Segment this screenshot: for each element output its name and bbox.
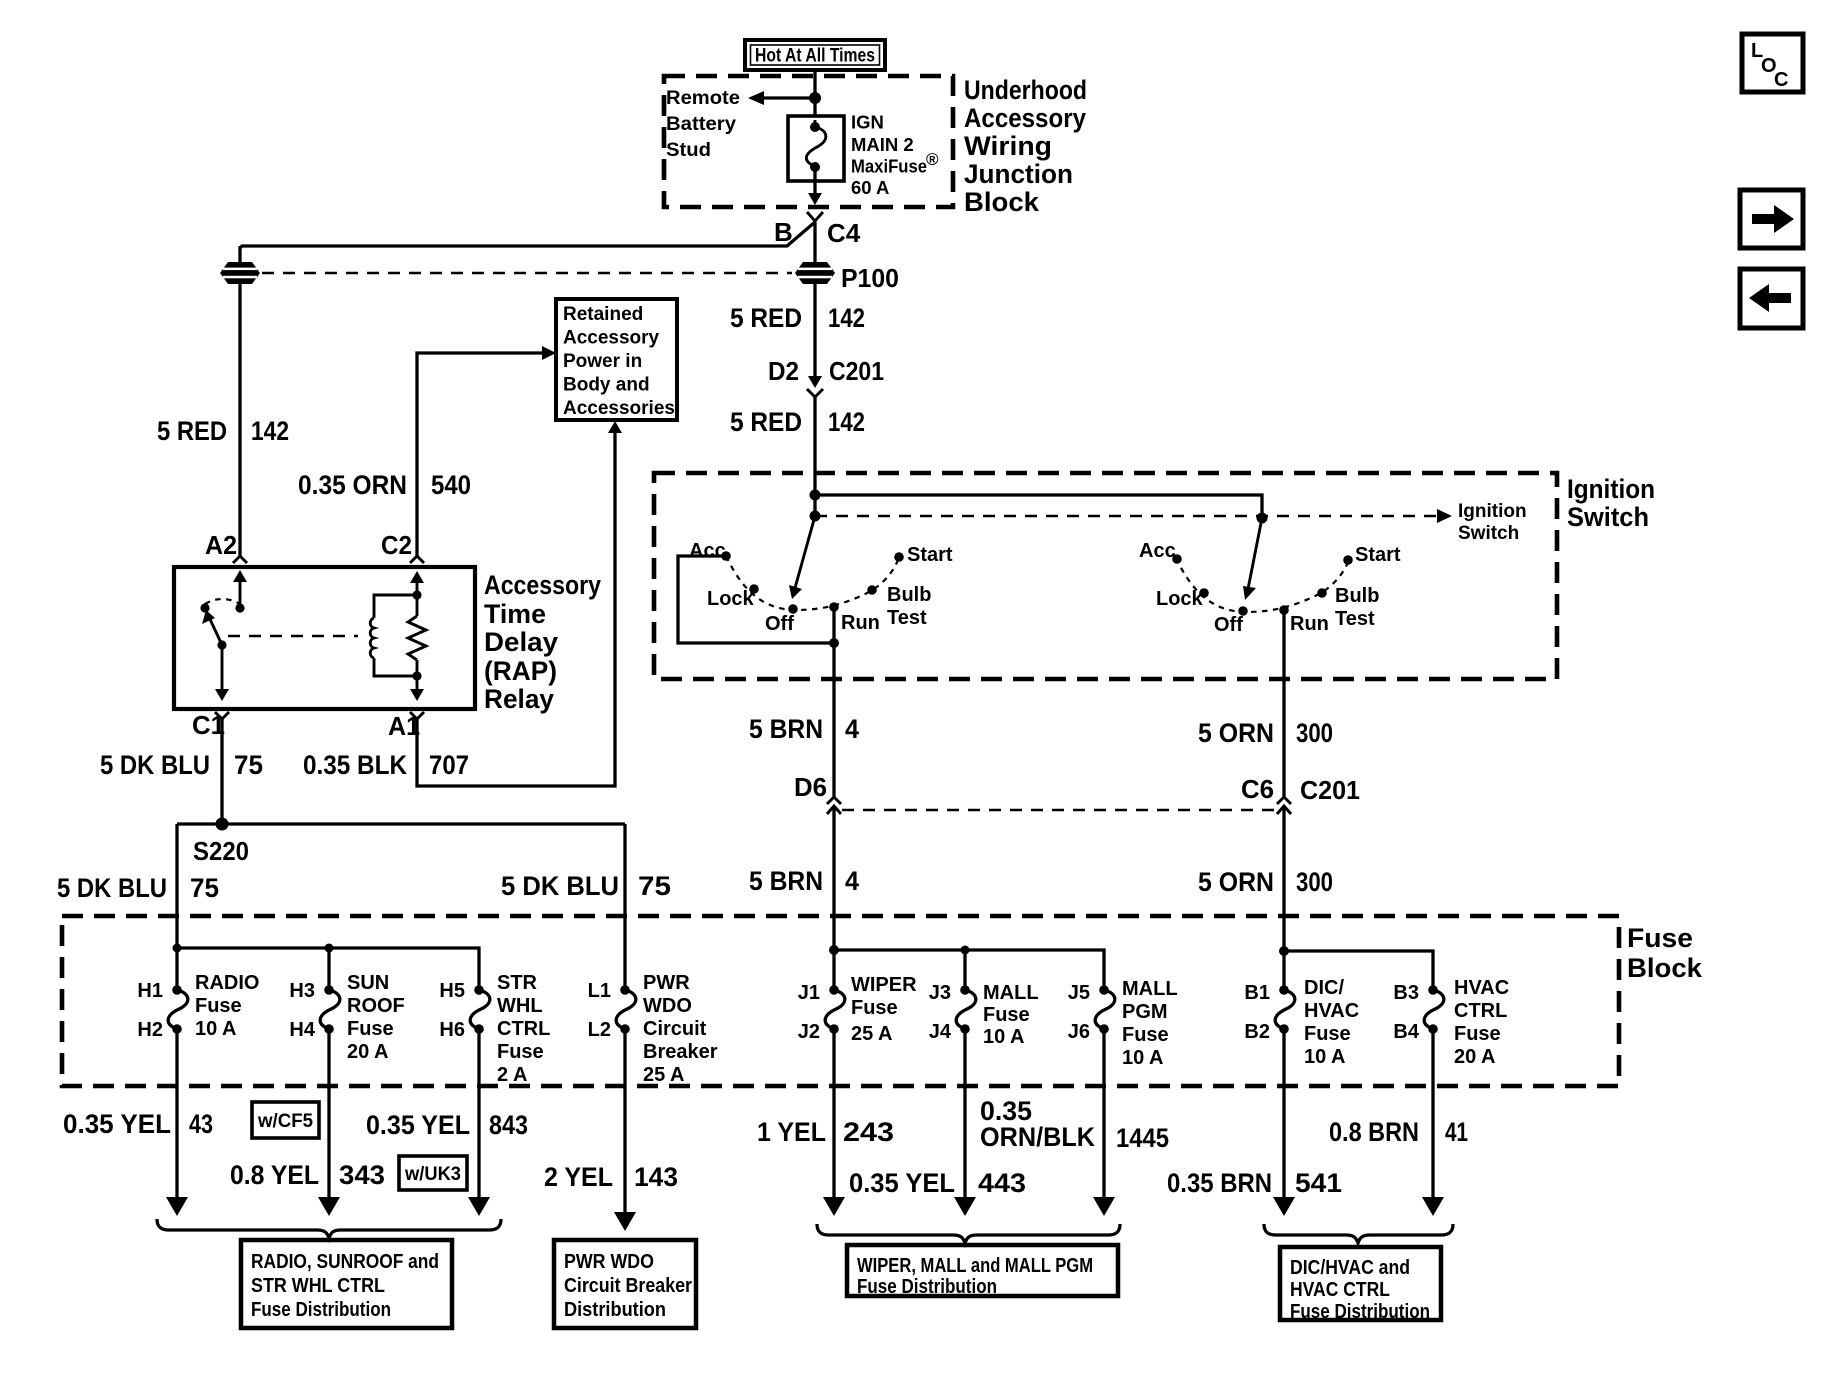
svg-text:0.35 YEL: 0.35 YEL (63, 1109, 171, 1139)
connector C1 chevron (215, 712, 229, 719)
svg-text:142: 142 (251, 416, 289, 446)
wire J2 output arrow (823, 1029, 845, 1216)
label 0.8 YEL 343 (230, 1160, 385, 1190)
svg-text:0.35 BRN: 0.35 BRN (1167, 1168, 1272, 1198)
svg-text:Remote: Remote (666, 88, 740, 109)
relay A1 terminal arrow inside (410, 676, 424, 701)
wire dashed pass-through between grommets (262, 272, 792, 275)
wire 5 DK BLU 75 right drop to L1 (623, 824, 626, 990)
svg-text:RADIO: RADIO (195, 972, 259, 994)
svg-text:C201: C201 (1300, 775, 1360, 805)
node Remote Battery Stud label (666, 88, 740, 161)
svg-text:2 YEL: 2 YEL (544, 1162, 613, 1192)
svg-text:Fuse Distribution: Fuse Distribution (857, 1276, 997, 1298)
svg-text:PWR WDO: PWR WDO (564, 1251, 654, 1273)
fuse MALL 10A (929, 982, 1039, 1048)
svg-text:Fuse: Fuse (1304, 1023, 1351, 1045)
svg-text:L2: L2 (588, 1019, 611, 1041)
wire arrow from feed to left wafer Off (789, 516, 815, 599)
label 5 RED 142 far left (157, 416, 289, 446)
label 5 DK BLU 75 upper (100, 750, 263, 780)
svg-text:Fuse: Fuse (983, 1004, 1030, 1026)
svg-text:J3: J3 (929, 982, 951, 1004)
svg-text:Test: Test (887, 607, 927, 629)
svg-text:Start: Start (907, 544, 953, 566)
svg-text:Accessory: Accessory (964, 103, 1086, 133)
svg-text:Breaker: Breaker (643, 1041, 718, 1063)
wire B2 output arrow (1273, 1029, 1295, 1216)
svg-text:Distribution: Distribution (564, 1299, 666, 1321)
svg-text:w/CF5: w/CF5 (257, 1111, 313, 1132)
fuse DIC HVAC 10A (1244, 977, 1359, 1068)
svg-text:HVAC: HVAC (1454, 977, 1509, 999)
wire B1 drop (1282, 951, 1285, 990)
right wafer position labels (1139, 540, 1401, 636)
svg-text:20 A: 20 A (1454, 1046, 1496, 1068)
wire arrow from feed to right wafer Off (1243, 518, 1262, 600)
svg-text:707: 707 (429, 750, 469, 780)
svg-text:ORN/BLK: ORN/BLK (980, 1122, 1095, 1152)
wire H2 output arrow (166, 1029, 188, 1216)
svg-text:L1: L1 (588, 980, 611, 1002)
svg-text:0.35 YEL: 0.35 YEL (849, 1168, 955, 1198)
svg-text:541: 541 (1295, 1168, 1342, 1198)
svg-text:PWR: PWR (643, 972, 690, 994)
right wafer contacts (1172, 554, 1353, 616)
svg-text:C1: C1 (192, 710, 225, 740)
wire dic bus (1284, 951, 1433, 990)
node Ignition Switch small label (1458, 501, 1527, 544)
svg-text:WIPER, MALL and MALL PGM: WIPER, MALL and MALL PGM (857, 1255, 1093, 1277)
left wafer position labels (689, 540, 953, 635)
svg-text:300: 300 (1296, 718, 1333, 748)
wire radio bus (177, 948, 479, 990)
svg-text:J2: J2 (798, 1021, 820, 1043)
circuit breaker PWR WDO 25A (588, 972, 718, 1086)
svg-text:H1: H1 (137, 980, 163, 1002)
relay A2 terminal arrow inside (233, 570, 247, 613)
wire 0.35 BLK 707 from A1 to Retained box (417, 421, 622, 786)
svg-text:Fuse: Fuse (497, 1041, 544, 1063)
node Fuse Block label (1627, 923, 1703, 983)
svg-text:0.35 YEL: 0.35 YEL (366, 1110, 470, 1140)
left wafer dashed arc (726, 556, 899, 610)
connector C2 chevron (410, 556, 424, 563)
svg-text:5 BRN: 5 BRN (749, 714, 823, 744)
svg-text:Fuse: Fuse (1627, 923, 1693, 953)
node left-arrow nav box (1740, 269, 1803, 328)
underhood junction block dashed box (664, 76, 953, 207)
svg-text:MALL: MALL (983, 982, 1039, 1004)
wire dashed ignition switch line with arrow (815, 509, 1452, 523)
svg-text:4: 4 (845, 866, 859, 896)
svg-text:10 A: 10 A (195, 1018, 237, 1040)
brace wiper mall group (817, 1224, 1120, 1243)
svg-text:Stud: Stud (666, 140, 711, 161)
svg-text:0.35 ORN: 0.35 ORN (298, 470, 407, 500)
svg-text:5 RED: 5 RED (157, 416, 227, 446)
svg-text:300: 300 (1296, 867, 1333, 897)
label 0.35 ORN 540 (298, 470, 471, 500)
svg-text:CTRL: CTRL (497, 1018, 550, 1040)
node right-arrow nav box (1740, 190, 1803, 248)
svg-text:Run: Run (1290, 613, 1329, 635)
svg-text:4: 4 (845, 714, 859, 744)
svg-text:0.8 YEL: 0.8 YEL (230, 1160, 319, 1190)
wire arrow to Remote Battery Stud (748, 91, 815, 105)
svg-text:C201: C201 (829, 356, 884, 386)
svg-text:10 A: 10 A (1122, 1047, 1164, 1069)
svg-text:STR WHL CTRL: STR WHL CTRL (251, 1275, 385, 1297)
node WIPER MALL and MALL PGM Fuse Distribution box (847, 1245, 1118, 1298)
svg-text:B4: B4 (1393, 1021, 1419, 1043)
wire from Hot At All Times into junction block (813, 70, 816, 122)
svg-text:343: 343 (339, 1160, 385, 1190)
svg-text:IGN: IGN (851, 112, 884, 133)
node ignition feed junction dashed (810, 511, 821, 522)
left wafer contacts (721, 551, 904, 614)
connector A1 chevron (410, 712, 424, 719)
label 5 ORN 300 lower (1198, 867, 1333, 897)
svg-text:C2: C2 (381, 530, 412, 560)
node Ignition Switch label big (1567, 474, 1655, 532)
svg-text:WDO: WDO (643, 995, 692, 1017)
label 1 YEL 243 (757, 1117, 894, 1147)
node DIC/HVAC and HVAC CTRL Fuse Distribution box (1280, 1247, 1441, 1323)
wire J4 output arrow (954, 1029, 976, 1216)
svg-text:Test: Test (1335, 608, 1375, 630)
svg-text:25 A: 25 A (851, 1023, 893, 1045)
svg-text:J6: J6 (1068, 1021, 1090, 1043)
label 0.35 BLK 707 (303, 750, 469, 780)
connector D6 chevrons (827, 797, 841, 814)
svg-text:243: 243 (843, 1117, 894, 1147)
svg-text:PGM: PGM (1122, 1001, 1168, 1023)
node wiper bus tee J3 (961, 946, 970, 955)
svg-text:RADIO, SUNROOF and: RADIO, SUNROOF and (251, 1251, 439, 1273)
wire S220 distribution bar (177, 822, 625, 825)
svg-text:D6: D6 (794, 772, 827, 802)
node RADIO SUNROOF STR WHL CTRL Fuse Distribution box (241, 1240, 452, 1328)
svg-text:Start: Start (1355, 544, 1401, 566)
label 5 BRN 4 lower (749, 866, 859, 896)
svg-text:Fuse: Fuse (347, 1018, 394, 1040)
node Hot At All Times (745, 40, 885, 70)
svg-text:J5: J5 (1068, 982, 1090, 1004)
svg-text:75: 75 (638, 871, 671, 901)
connector C4 chevron (807, 212, 823, 221)
svg-text:B3: B3 (1393, 982, 1419, 1004)
wire J3 drop (963, 950, 966, 990)
svg-text:C: C (1774, 69, 1788, 91)
svg-text:Off: Off (1214, 614, 1243, 636)
fuse RADIO 10A (137, 972, 259, 1041)
node Retained Accessory Power box (556, 299, 677, 420)
wire dashed C201 link between D6 and C6 (842, 809, 1276, 812)
wire 5 RED 142 from C201 into ignition switch (813, 397, 816, 516)
node w/UK3 tag (399, 1156, 467, 1190)
wire 5 ORN 300 from right Run out of ignition box (1282, 610, 1285, 797)
svg-text:Underhood: Underhood (964, 75, 1087, 105)
svg-text:DIC/HVAC and: DIC/HVAC and (1290, 1257, 1410, 1279)
wire H3 drop (327, 948, 330, 990)
node w/CF5 tag (252, 1102, 319, 1138)
fuse HVAC CTRL 20A (1393, 977, 1509, 1068)
wire solid feed to right wafer (815, 495, 1262, 518)
brace dic hvac group (1264, 1224, 1453, 1243)
node left Run output junction (829, 638, 839, 648)
wire center vertical from C4 to P100 (813, 221, 816, 262)
svg-text:Acc: Acc (689, 540, 726, 562)
svg-text:Circuit: Circuit (643, 1018, 707, 1040)
svg-text:20 A: 20 A (347, 1041, 389, 1063)
svg-text:75: 75 (190, 873, 219, 903)
relay switch pivot (200, 603, 209, 612)
svg-text:Hot At All Times: Hot At All Times (755, 46, 875, 67)
node radio bus tee H3 (325, 944, 334, 953)
svg-text:Ignition: Ignition (1458, 501, 1527, 522)
svg-text:443: 443 (978, 1168, 1026, 1198)
label 0.8 BRN 41 (1329, 1117, 1468, 1147)
svg-text:CTRL: CTRL (1454, 1000, 1507, 1022)
svg-text:0.35 BLK: 0.35 BLK (303, 750, 407, 780)
wire B diagonal branch (240, 222, 815, 248)
label 5 BRN 4 upper (749, 714, 859, 744)
svg-text:43: 43 (189, 1109, 213, 1139)
node right wafer feed junction (1257, 513, 1268, 524)
wire B4 output arrow (1422, 1029, 1444, 1216)
svg-text:5 DK BLU: 5 DK BLU (501, 871, 619, 901)
svg-text:Fuse: Fuse (195, 995, 242, 1017)
svg-text:Accessory: Accessory (563, 328, 660, 349)
svg-text:(RAP): (RAP) (484, 656, 557, 686)
relay switch arm with arrowhead (202, 610, 227, 650)
fuse WIPER 25A (798, 974, 917, 1045)
node Underhood Accessory Wiring Junction Block label (964, 75, 1087, 217)
fuse MALL PGM 10A (1068, 978, 1178, 1069)
svg-text:5 BRN: 5 BRN (749, 866, 823, 896)
svg-text:843: 843 (489, 1110, 528, 1140)
svg-text:WIPER: WIPER (851, 974, 917, 996)
svg-text:B1: B1 (1244, 982, 1270, 1004)
grommet P100 (795, 262, 835, 284)
wire left wafer Acc loop to Run output (678, 556, 834, 643)
wire 5 BRN 4 from D6 to fuse block (832, 806, 835, 950)
svg-text:MALL: MALL (1122, 978, 1178, 1000)
svg-text:1445: 1445 (1116, 1123, 1169, 1153)
wire H4 output arrow (318, 1029, 340, 1216)
label 5 ORN 300 upper (1198, 718, 1333, 748)
wire 5 ORN 300 from C6 to fuse block (1282, 806, 1285, 951)
svg-text:Fuse Distribution: Fuse Distribution (251, 1299, 391, 1321)
relay C2 terminal arrow inside (410, 571, 424, 600)
wire J1 drop (832, 950, 835, 990)
wire left Run stem (832, 607, 835, 643)
svg-text:41: 41 (1445, 1117, 1468, 1147)
svg-text:MaxiFuse: MaxiFuse (851, 156, 927, 177)
svg-text:A2: A2 (205, 530, 237, 560)
svg-text:Retained: Retained (563, 304, 643, 325)
svg-text:Block: Block (964, 187, 1040, 217)
svg-text:®: ® (926, 150, 939, 169)
svg-text:HVAC CTRL: HVAC CTRL (1290, 1279, 1390, 1301)
node wiper bus junction (829, 945, 839, 955)
svg-text:Fuse: Fuse (1454, 1023, 1501, 1045)
ignition switch dashed box (654, 473, 1557, 679)
svg-text:1 YEL: 1 YEL (757, 1117, 826, 1147)
fuse block dashed box (62, 916, 1619, 1086)
svg-text:Switch: Switch (1458, 523, 1519, 544)
svg-text:5 ORN: 5 ORN (1198, 867, 1274, 897)
svg-text:S220: S220 (193, 836, 249, 866)
svg-text:Delay: Delay (484, 627, 558, 657)
svg-text:H5: H5 (439, 980, 465, 1002)
svg-text:Junction: Junction (964, 159, 1073, 189)
svg-text:5 DK BLU: 5 DK BLU (100, 750, 210, 780)
label 0.35 BRN 541 (1167, 1168, 1342, 1198)
svg-text:5 RED: 5 RED (730, 303, 802, 333)
svg-text:Fuse: Fuse (1122, 1024, 1169, 1046)
svg-text:Accessories: Accessories (563, 398, 675, 419)
grommet left (220, 262, 260, 284)
label 5 RED 142 upper (730, 303, 865, 333)
wire left vertical 5 RED 142 down to A2 (238, 246, 241, 556)
svg-text:SUN: SUN (347, 972, 389, 994)
wire J6 output arrow (1093, 1029, 1115, 1216)
svg-text:60 A: 60 A (851, 177, 889, 198)
svg-text:H6: H6 (439, 1019, 465, 1041)
svg-text:J4: J4 (929, 1021, 952, 1043)
fuse STR WHL CTRL 2A (439, 972, 550, 1086)
relay C1 terminal arrow inside (215, 645, 229, 701)
svg-text:0.8 BRN: 0.8 BRN (1329, 1117, 1419, 1147)
label 0.35 YEL 443 (849, 1168, 1026, 1198)
fuse SUN ROOF 20A (289, 972, 404, 1063)
svg-text:D2: D2 (768, 356, 799, 386)
wire 0.35 ORN 540 from RAP relay C2 to Retained box (417, 346, 556, 556)
fuse IGN MAIN 2 MaxiFuse 60 A (788, 112, 939, 199)
svg-text:142: 142 (828, 407, 865, 437)
label 5 RED 142 lower (730, 407, 865, 437)
svg-text:Body and: Body and (563, 375, 650, 396)
svg-text:142: 142 (828, 303, 865, 333)
node remote battery stud junction (809, 92, 821, 104)
svg-text:H4: H4 (289, 1019, 315, 1041)
svg-text:Relay: Relay (484, 684, 554, 714)
wire 5 RED 142 from P100 to C201 (808, 284, 822, 388)
node ignition feed junction solid (810, 490, 821, 501)
node S220 splice (193, 818, 249, 867)
wire wiper bus (834, 950, 1104, 990)
relay box Accessory Time Delay RAP (174, 567, 475, 709)
brace radio sunroof group (157, 1219, 501, 1238)
svg-text:Ignition: Ignition (1567, 474, 1655, 504)
svg-text:75: 75 (234, 750, 263, 780)
wire 5 BRN 4 from Run out of ignition box (832, 643, 835, 797)
wire 5 DK BLU 75 from C1 to S220 (220, 719, 223, 824)
svg-text:5 RED: 5 RED (730, 407, 802, 437)
relay resistor (408, 595, 426, 681)
node Accessory Time Delay (RAP) Relay label (484, 570, 601, 714)
svg-text:Switch: Switch (1567, 502, 1649, 532)
label 5 DK BLU 75 left (57, 873, 219, 903)
svg-text:Circuit Breaker: Circuit Breaker (564, 1275, 692, 1297)
label 0.35 ORN/BLK 1445 (980, 1096, 1169, 1153)
svg-text:ROOF: ROOF (347, 995, 405, 1017)
label 0.35 YEL 43 (63, 1109, 213, 1139)
wire 5 DK BLU 75 left drop (175, 824, 178, 990)
svg-text:Battery: Battery (666, 114, 736, 135)
svg-text:B2: B2 (1244, 1021, 1270, 1043)
svg-text:C4: C4 (827, 218, 861, 248)
svg-text:540: 540 (431, 470, 471, 500)
svg-text:STR: STR (497, 972, 538, 994)
svg-text:Bulb: Bulb (887, 584, 931, 606)
label 0.35 YEL 843 (366, 1110, 528, 1140)
wire L2 output arrow (614, 1029, 636, 1231)
svg-text:10 A: 10 A (1304, 1046, 1346, 1068)
svg-text:MAIN 2: MAIN 2 (851, 134, 914, 155)
svg-text:H2: H2 (137, 1019, 163, 1041)
svg-text:H3: H3 (289, 980, 315, 1002)
svg-text:Fuse: Fuse (851, 997, 898, 1019)
relay coil (370, 595, 417, 676)
svg-text:Bulb: Bulb (1335, 585, 1379, 607)
wire H6 output arrow (468, 1029, 490, 1216)
connector C6 chevrons (1277, 797, 1291, 814)
node LOC box (1742, 34, 1803, 92)
node radio bus tee H1 (173, 944, 182, 953)
svg-text:5 ORN: 5 ORN (1198, 718, 1274, 748)
wire from MaxiFuse down out of junction block (808, 167, 822, 205)
svg-text:2 A: 2 A (497, 1064, 527, 1086)
svg-text:5 DK BLU: 5 DK BLU (57, 873, 167, 903)
svg-text:HVAC: HVAC (1304, 1000, 1359, 1022)
svg-text:Run: Run (841, 612, 880, 634)
svg-text:Block: Block (1627, 953, 1703, 983)
svg-text:P100: P100 (841, 263, 899, 293)
relay switch dashed link to coil (228, 635, 358, 638)
svg-text:DIC/: DIC/ (1304, 977, 1344, 999)
label 5 DK BLU 75 right (501, 871, 671, 901)
svg-text:Lock: Lock (707, 588, 755, 610)
svg-text:Accessory: Accessory (484, 570, 601, 600)
svg-text:w/UK3: w/UK3 (404, 1164, 461, 1185)
svg-text:10 A: 10 A (983, 1026, 1025, 1048)
svg-text:Power in: Power in (563, 351, 642, 372)
svg-text:25 A: 25 A (643, 1064, 685, 1086)
svg-text:C6: C6 (1241, 774, 1274, 804)
relay switch motion dashed arc (205, 599, 240, 604)
svg-text:Wiring: Wiring (964, 131, 1052, 161)
svg-text:WHL: WHL (497, 995, 543, 1017)
svg-text:Time: Time (484, 599, 546, 629)
connector A2 chevron (233, 556, 247, 563)
right wafer dashed arc (1176, 558, 1349, 612)
svg-text:143: 143 (634, 1162, 678, 1192)
svg-text:Fuse Distribution: Fuse Distribution (1290, 1301, 1430, 1323)
connector C201 D2 chevron (807, 389, 823, 397)
svg-text:Off: Off (765, 613, 794, 635)
node dic bus junction (1279, 946, 1289, 956)
svg-text:Acc: Acc (1139, 540, 1176, 562)
svg-text:Lock: Lock (1156, 588, 1204, 610)
label 2 YEL 143 (544, 1162, 678, 1192)
node PWR WDO Circuit Breaker Distribution box (554, 1240, 696, 1328)
svg-text:J1: J1 (798, 982, 820, 1004)
